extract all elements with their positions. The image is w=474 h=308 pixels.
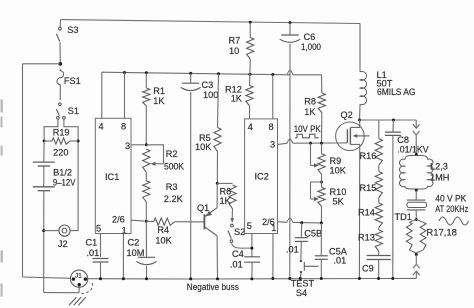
wire to J2 bbox=[44, 230, 59, 232]
svg-text:AT 20KHz: AT 20KHz bbox=[435, 204, 468, 214]
resistor R18 bbox=[416, 220, 423, 223]
wire negative buss left bbox=[23, 277, 71, 278]
J1 pin right bbox=[84, 277, 87, 280]
svg-text:C2: C2 bbox=[128, 238, 140, 248]
svg-text:500K: 500K bbox=[164, 161, 185, 171]
svg-text:R19: R19 bbox=[53, 127, 70, 137]
wire IC1 pin1 down bbox=[122, 234, 124, 279]
waveform sine glyph bbox=[439, 217, 469, 225]
wire C4 to buss bbox=[251, 262, 253, 279]
node R7 top bbox=[249, 21, 252, 24]
switch S2 bbox=[231, 224, 234, 227]
wire negative buss bbox=[88, 278, 191, 280]
svg-text:C6: C6 bbox=[304, 32, 316, 42]
node buss IC1 pin1 bbox=[122, 277, 125, 280]
wire IC2 pin5 down bbox=[251, 234, 253, 257]
node R9/R10 bbox=[320, 181, 323, 184]
svg-text:J2: J2 bbox=[58, 239, 68, 249]
node drain bbox=[358, 119, 361, 122]
node buss C2 bbox=[145, 277, 148, 280]
svg-text:R9: R9 bbox=[330, 156, 342, 166]
svg-text:R3: R3 bbox=[166, 182, 178, 192]
svg-text:C5B: C5B bbox=[304, 229, 322, 239]
J1 pin bottom bbox=[78, 283, 81, 286]
wire left drop bbox=[22, 64, 24, 277]
node J2 tee bbox=[42, 229, 45, 232]
svg-text:C4: C4 bbox=[232, 249, 244, 259]
resistor R8 bbox=[318, 93, 325, 113]
resistor R12 bbox=[249, 74, 251, 85]
svg-text:S2: S2 bbox=[234, 227, 245, 237]
node buss C9 bbox=[377, 277, 380, 280]
wire Q2 source down bbox=[358, 151, 360, 279]
svg-text:R6: R6 bbox=[220, 187, 232, 197]
svg-text:C3: C3 bbox=[202, 80, 214, 90]
node R1 top bbox=[145, 71, 148, 74]
wire S1 right to R19 bbox=[64, 119, 78, 139]
capacitor C3 bbox=[190, 73, 192, 83]
wire to plug bottom bbox=[415, 255, 417, 265]
ground bbox=[69, 297, 76, 305]
wire top rail bbox=[61, 20, 360, 24]
capacitor C8 bbox=[392, 120, 395, 132]
wire L23 to TD1 bbox=[415, 190, 417, 200]
svg-text:40 V PK: 40 V PK bbox=[435, 193, 467, 203]
resistor R17 bbox=[410, 220, 417, 223]
node buss S4 bbox=[299, 277, 302, 280]
wire node to plug bbox=[415, 120, 417, 128]
svg-text:1K: 1K bbox=[304, 107, 316, 117]
connector J1 bbox=[71, 270, 88, 287]
node pin3 junction bbox=[145, 143, 148, 146]
wire S3 drop bbox=[59, 20, 62, 28]
svg-text:10V PK: 10V PK bbox=[294, 124, 322, 134]
wire C6 to buss bbox=[289, 44, 291, 279]
wire L1 to drain node bbox=[359, 104, 361, 118]
wire mid rail pin4 drop bbox=[101, 72, 103, 118]
svg-text:100: 100 bbox=[203, 90, 218, 100]
svg-text:3: 3 bbox=[270, 140, 275, 150]
node R19 left bbox=[43, 140, 46, 143]
svg-text:.01/1KV: .01/1KV bbox=[397, 144, 428, 154]
inductor L1 bbox=[360, 71, 366, 104]
svg-text:4: 4 bbox=[99, 122, 104, 132]
svg-text:R15: R15 bbox=[360, 183, 377, 193]
wire C3 to buss bbox=[190, 92, 192, 279]
node buss C8 bbox=[391, 277, 394, 280]
svg-text:IC1: IC1 bbox=[105, 172, 119, 182]
wire ground run bbox=[44, 292, 79, 294]
svg-text:10: 10 bbox=[229, 46, 239, 56]
resistor R4 bbox=[146, 220, 153, 222]
node S3/FS1 junction bbox=[58, 62, 62, 66]
svg-text:1K: 1K bbox=[153, 96, 165, 106]
wire C2 to buss bbox=[146, 266, 148, 279]
svg-text:5: 5 bbox=[96, 223, 101, 233]
svg-text:9–12V: 9–12V bbox=[53, 177, 76, 187]
svg-text:S1: S1 bbox=[68, 106, 79, 116]
wire Q1 collector down bbox=[216, 236, 218, 279]
svg-text:220: 220 bbox=[53, 148, 68, 158]
svg-text:8: 8 bbox=[121, 122, 126, 132]
fuse FS1 bbox=[57, 69, 64, 100]
wire R19 to battery bbox=[43, 141, 45, 162]
svg-text:TD1: TD1 bbox=[395, 212, 412, 222]
transistor Q1 bbox=[203, 214, 205, 229]
resistor R1 bbox=[145, 73, 147, 88]
node buss Q1 bbox=[216, 277, 219, 280]
node R8/R9 bbox=[320, 142, 323, 145]
svg-text:10M: 10M bbox=[127, 248, 145, 258]
svg-text:.01: .01 bbox=[286, 245, 299, 255]
svg-text:L2,3: L2,3 bbox=[430, 162, 448, 172]
node C8 top bbox=[392, 119, 395, 122]
wire pin8 drop IC1 bbox=[124, 73, 126, 119]
node buss C5A bbox=[320, 277, 323, 280]
svg-text:R17,18: R17,18 bbox=[426, 227, 457, 237]
svg-text:4: 4 bbox=[248, 122, 253, 132]
svg-text:1K: 1K bbox=[220, 196, 232, 206]
node C5A top bbox=[320, 221, 323, 224]
label C8 value bbox=[397, 145, 426, 153]
node C5B top bbox=[300, 221, 303, 224]
J1 shield dashed bbox=[81, 283, 92, 294]
wire R8 drop bbox=[321, 75, 323, 93]
resistor R7 bbox=[249, 22, 251, 37]
node R9 wiper bbox=[309, 142, 312, 145]
svg-text:1: 1 bbox=[122, 225, 127, 235]
svg-text:.01: .01 bbox=[334, 256, 347, 266]
wire IC1 pin3 out bbox=[131, 144, 145, 146]
node S2 join bbox=[250, 247, 253, 250]
node buss C3 bbox=[189, 277, 192, 280]
potentiometer R9 bbox=[321, 143, 323, 154]
wire S1 left to R19 bbox=[44, 119, 58, 139]
potentiometer R2 bbox=[143, 149, 150, 172]
wire J2 to R19 right bbox=[70, 142, 78, 230]
capacitor C6 bbox=[289, 23, 291, 35]
svg-text:Q1: Q1 bbox=[197, 203, 209, 213]
svg-text:1: 1 bbox=[271, 223, 276, 233]
wire C5A to buss bbox=[320, 259, 322, 278]
decor bbox=[1, 100, 3, 297]
svg-text:IC2: IC2 bbox=[255, 172, 269, 182]
battery B1/2 bbox=[33, 161, 55, 163]
resistor R16 bbox=[375, 139, 382, 166]
wire IC2 pin26 out bbox=[278, 221, 288, 224]
wire pin26 hop over C6 bbox=[287, 218, 293, 222]
capacitor C1 bbox=[93, 258, 109, 260]
connector plug bottom A bbox=[413, 264, 420, 268]
node TD1/R1718 top bbox=[415, 218, 418, 221]
capacitor C5B bbox=[300, 223, 302, 238]
wire IC2 pin1 down bbox=[272, 234, 274, 279]
svg-text:Negative buss: Negative buss bbox=[187, 282, 239, 293]
svg-text:5K: 5K bbox=[333, 197, 345, 207]
node buss C6 bbox=[288, 277, 291, 280]
node R1718 bottom bbox=[415, 253, 418, 256]
node R5/R6/Q1 junction bbox=[216, 182, 219, 185]
svg-text:2/6: 2/6 bbox=[112, 215, 125, 225]
wire rail hop over C6 bbox=[287, 71, 293, 75]
svg-text:8: 8 bbox=[269, 122, 274, 132]
svg-text:C9: C9 bbox=[362, 264, 374, 274]
waveform pulse glyph bbox=[295, 134, 319, 138]
inductor L2,3 bbox=[399, 156, 433, 190]
J1 pin left bbox=[72, 277, 75, 280]
wire C1 to buss bbox=[100, 262, 102, 279]
svg-text:R16: R16 bbox=[360, 151, 377, 161]
node C6 top bbox=[289, 21, 292, 24]
node L23 bottom bbox=[415, 189, 418, 192]
svg-text:R13: R13 bbox=[358, 233, 375, 243]
potentiometer R10 bbox=[321, 174, 323, 187]
connector plug top B bbox=[413, 131, 420, 135]
wire Q1 emitter up bbox=[216, 183, 218, 207]
node R19 right bbox=[77, 140, 80, 143]
svg-text:R4: R4 bbox=[157, 225, 169, 235]
svg-text:6MILS AG: 6MILS AG bbox=[377, 87, 416, 97]
wire top rail to L1 bbox=[359, 24, 361, 72]
capacitor C4 bbox=[244, 256, 260, 258]
node L23 top bbox=[415, 153, 418, 156]
resistor R13 bbox=[378, 228, 380, 231]
resistor R3 bbox=[145, 172, 147, 181]
svg-text:R14: R14 bbox=[358, 208, 375, 218]
wire R16 tee bbox=[378, 120, 380, 139]
svg-text:5: 5 bbox=[247, 221, 252, 231]
resistor R14 bbox=[378, 198, 380, 204]
svg-text:10K: 10K bbox=[330, 166, 347, 176]
resistor R6 bbox=[217, 182, 232, 184]
svg-text:.01: .01 bbox=[87, 248, 100, 258]
svg-text:FS1: FS1 bbox=[64, 76, 81, 86]
connector plug bottom B bbox=[413, 271, 420, 275]
svg-text:10K: 10K bbox=[195, 142, 212, 152]
connector plug top A bbox=[413, 124, 420, 128]
wire C9 to buss bbox=[378, 260, 380, 279]
wire junction to left bbox=[23, 63, 61, 65]
svg-text:C1: C1 bbox=[86, 238, 98, 248]
connector J2 bbox=[59, 225, 70, 236]
capacitor C2 bbox=[145, 221, 147, 257]
svg-text:R2: R2 bbox=[166, 149, 178, 159]
op-amp U1 box IC1 bbox=[95, 118, 131, 233]
wire IC2 pin3 out bbox=[278, 143, 288, 144]
switch S1 bbox=[59, 103, 62, 106]
node C3 top bbox=[189, 72, 192, 75]
svg-text:1MH: 1MH bbox=[430, 173, 449, 183]
wire pin8 drop IC2 bbox=[272, 75, 274, 119]
svg-text:S3: S3 bbox=[67, 25, 78, 35]
node buss Q2 source bbox=[358, 277, 361, 280]
transistor Q2 bbox=[336, 122, 365, 151]
switch S3 bbox=[59, 27, 62, 30]
svg-text:1K: 1K bbox=[231, 94, 243, 104]
svg-text:R8: R8 bbox=[304, 97, 316, 107]
svg-text:.01: .01 bbox=[230, 260, 243, 270]
wire mid rail bbox=[102, 72, 290, 75]
resistor R15 bbox=[378, 166, 380, 172]
svg-text:2.2K: 2.2K bbox=[164, 194, 184, 204]
capacitor C5A bbox=[320, 223, 322, 256]
wire IC1 pin5 down bbox=[100, 234, 102, 258]
wire C8 to buss bbox=[392, 135, 394, 278]
svg-text:S4: S4 bbox=[296, 288, 307, 298]
wire J1 shield drop bbox=[78, 286, 80, 292]
svg-text:10K: 10K bbox=[155, 236, 172, 246]
resistor R5 bbox=[218, 74, 219, 128]
svg-text:R7: R7 bbox=[229, 36, 241, 46]
node R5 top bbox=[217, 72, 220, 75]
svg-text:3: 3 bbox=[125, 141, 130, 151]
node buss IC2 pin1 bbox=[271, 277, 274, 280]
svg-text:1,000: 1,000 bbox=[301, 42, 321, 52]
svg-text:Q2: Q2 bbox=[341, 110, 353, 120]
node pin8 IC1 bbox=[123, 71, 126, 74]
op-amp U2 box IC2 bbox=[245, 119, 278, 234]
wire battery to gnd rail bbox=[43, 191, 45, 293]
switch S4 TEST bbox=[300, 241, 302, 259]
svg-text:TEST: TEST bbox=[291, 279, 315, 289]
capacitor C9 bbox=[378, 251, 380, 256]
wire drain node line bbox=[360, 119, 417, 121]
wire IC1 pin26 out bbox=[131, 219, 145, 222]
node timing junction IC1 bbox=[145, 220, 148, 223]
svg-text:B1/2: B1/2 bbox=[53, 167, 72, 177]
node R12 top bbox=[248, 73, 251, 76]
node buss C1 bbox=[99, 277, 102, 280]
svg-text:R1: R1 bbox=[153, 86, 165, 96]
resistor R19 bbox=[44, 140, 52, 142]
node buss C4 bbox=[250, 277, 253, 280]
wire R10 to node bbox=[320, 206, 322, 223]
svg-text:J1: J1 bbox=[75, 273, 82, 280]
node pin8 IC2 bbox=[271, 73, 274, 76]
wire gate hop over C6 bbox=[287, 139, 293, 143]
transducer TD1 bbox=[407, 199, 425, 201]
